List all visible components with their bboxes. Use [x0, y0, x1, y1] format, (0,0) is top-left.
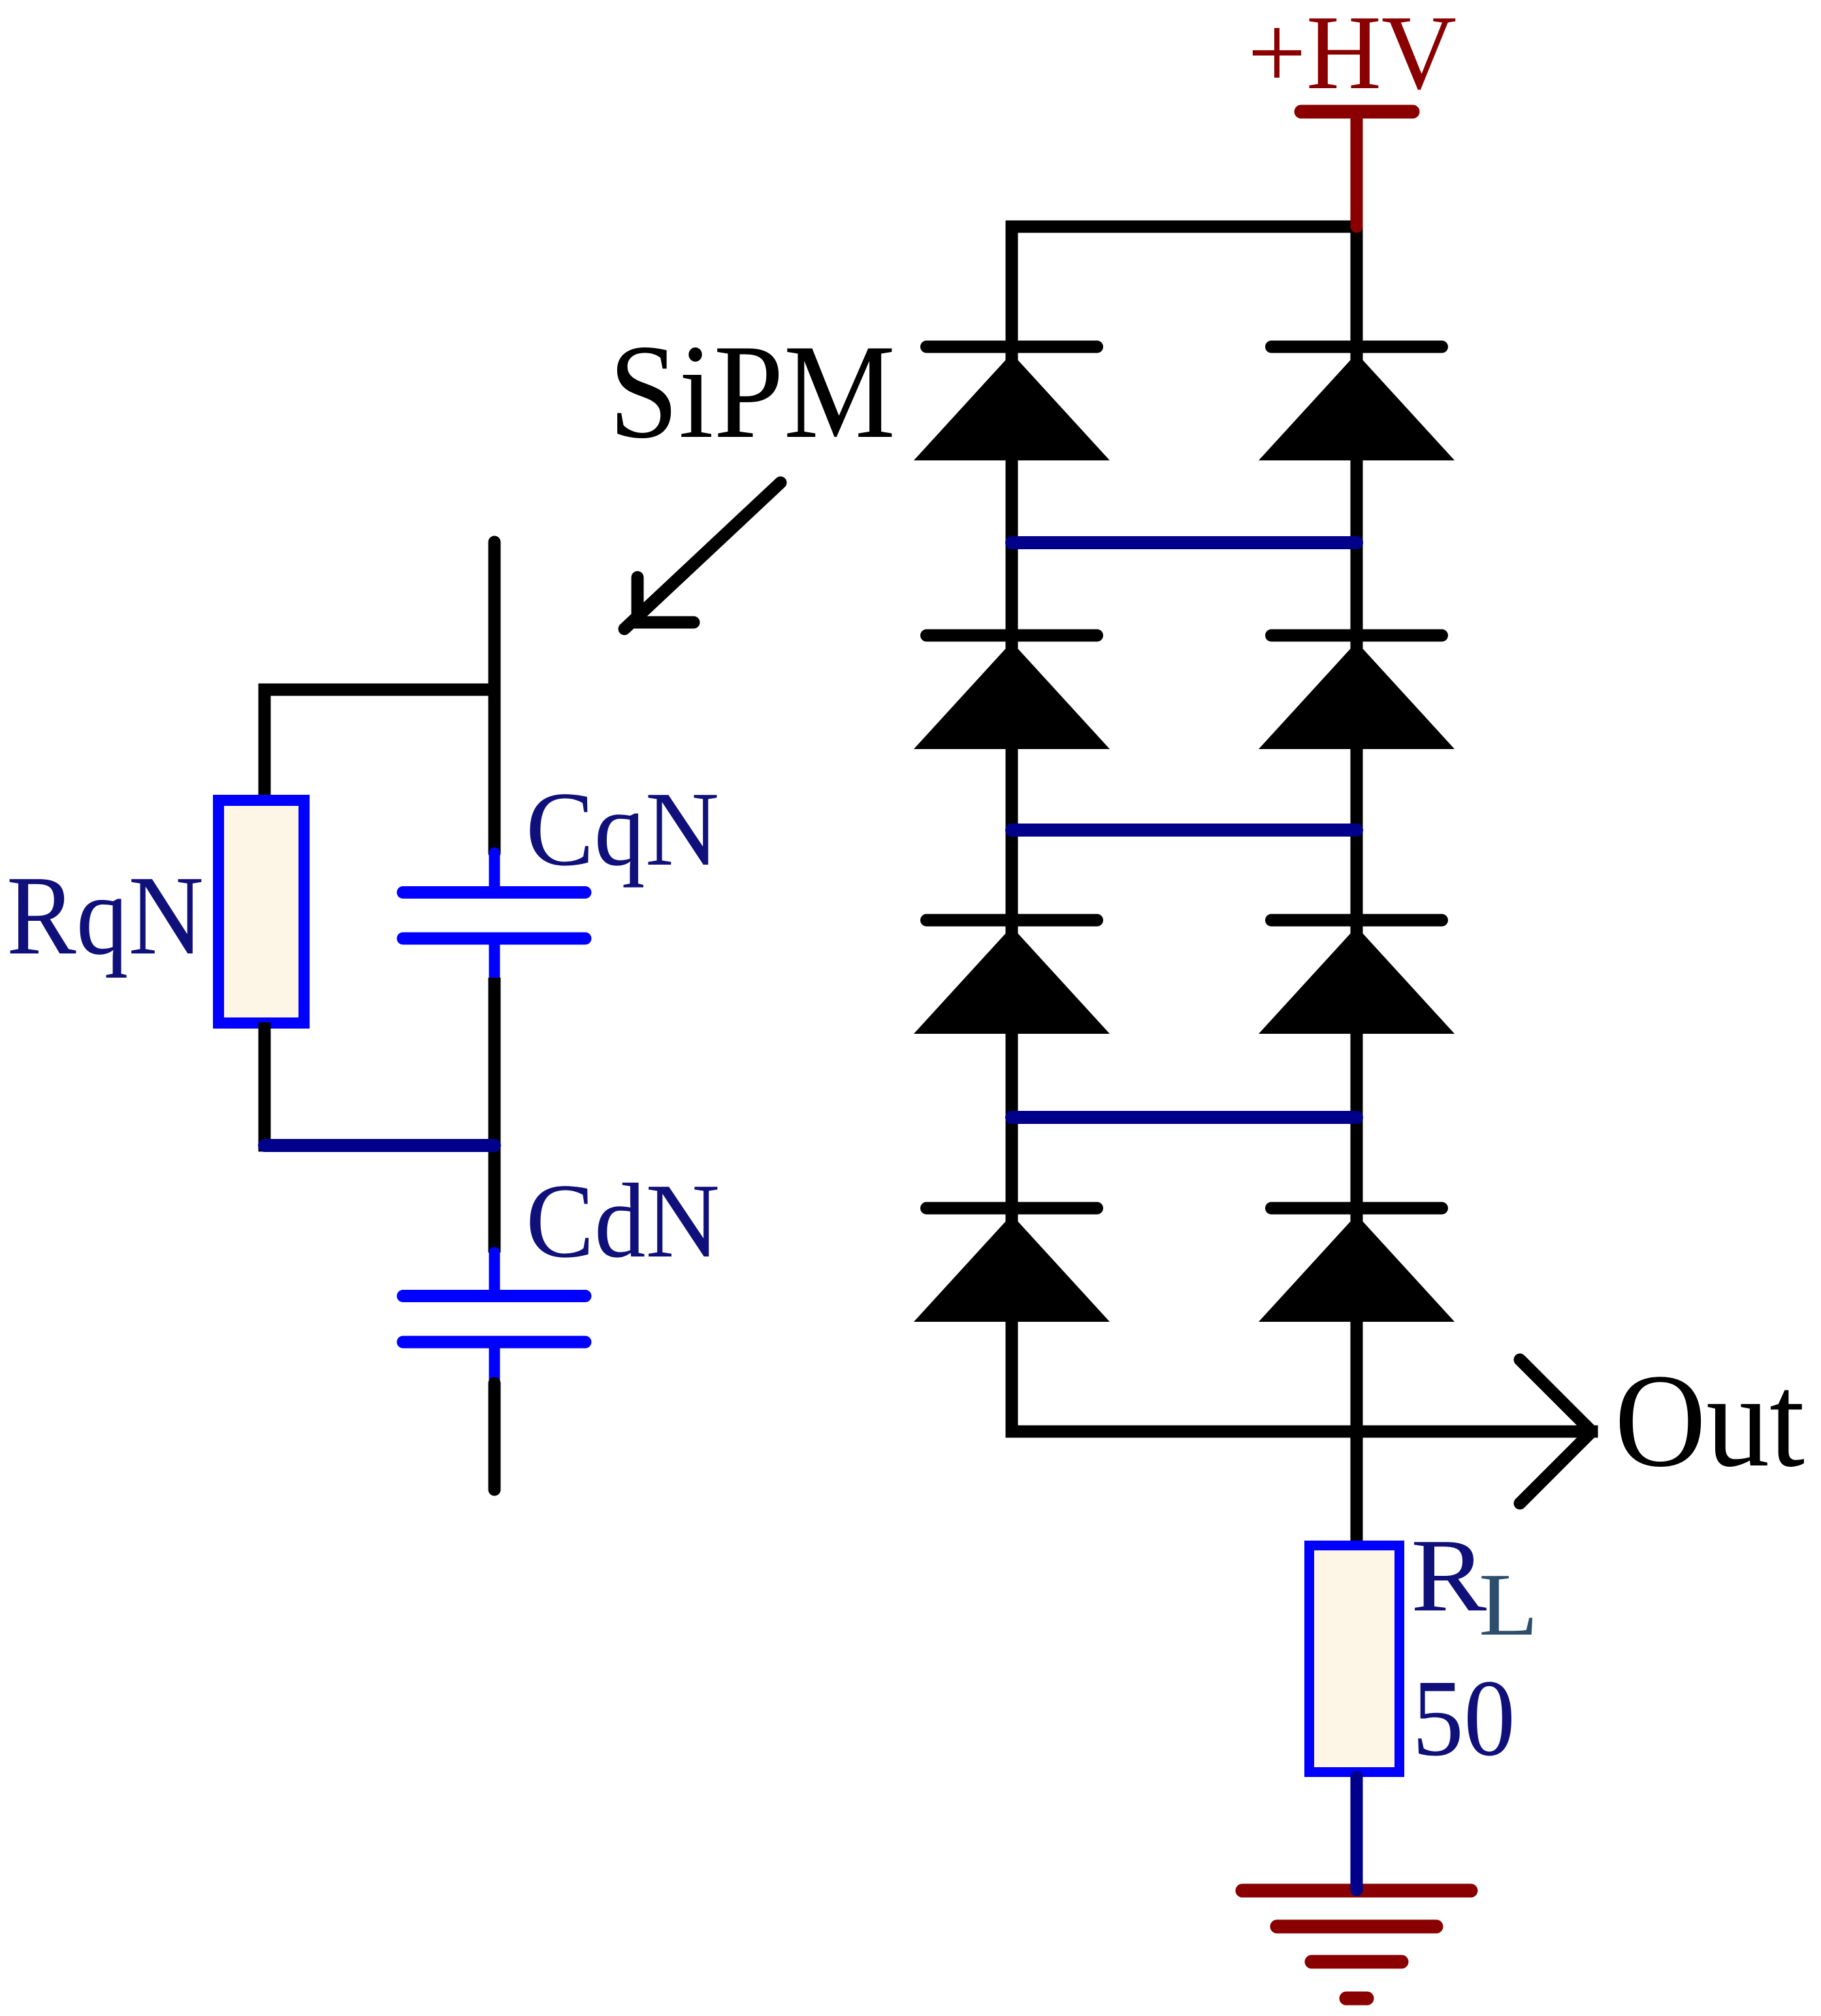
diode D7 (left column row 4) [914, 1208, 1110, 1322]
wire between CqN and CdN [489, 978, 501, 1253]
svg-text:CqN: CqN [526, 771, 719, 888]
SiPM pointer arrow head [632, 577, 644, 620]
svg-text:L: L [1479, 1555, 1538, 1654]
svg-text:SiPM: SiPM [609, 317, 895, 466]
wire microcell cathode lead [489, 1383, 501, 1490]
Out arrow head [1520, 1360, 1592, 1503]
wire top bus from +HV node to left diode column [1012, 221, 1357, 233]
wire right diode column [1351, 227, 1363, 1541]
svg-text:+HV: +HV [1248, 0, 1457, 112]
diode D6 (right column row 3) [1259, 920, 1455, 1034]
ground symbol [1242, 1891, 1471, 1998]
wire blue tie row 1 [1012, 536, 1357, 549]
wire RqN bottom lead [259, 1029, 271, 1145]
resistor RqN [219, 801, 304, 1023]
wire RL to ground [1351, 1777, 1363, 1890]
wire output line [1012, 1426, 1592, 1438]
diode D4 (right column row 2) [1259, 635, 1455, 749]
wire blue tie row 3 [1012, 1111, 1357, 1124]
diode D2 (right column row 1) [1259, 347, 1455, 460]
diode D1 (left column row 1) [914, 347, 1110, 460]
SiPM pointer arrow shaft [624, 483, 781, 629]
wire microcell anode lead [489, 542, 501, 853]
capacitor CdN [403, 1253, 585, 1383]
wire left diode column [1006, 227, 1018, 1432]
capacitor CqN [403, 853, 585, 978]
svg-text:50: 50 [1412, 1657, 1515, 1779]
diode D3 (left column row 2) [914, 635, 1110, 749]
resistor RL [1310, 1546, 1400, 1772]
wire blue tie row 2 [1012, 824, 1357, 837]
svg-text:RqN: RqN [7, 852, 204, 978]
wire branch down to RqN [259, 690, 271, 795]
svg-text:CdN: CdN [526, 1162, 720, 1280]
+HV supply bar [1301, 105, 1413, 119]
svg-text:R: R [1411, 1517, 1487, 1633]
wire microcell branch top [265, 684, 494, 696]
svg-text:Out: Out [1615, 1347, 1805, 1495]
diode D8 (right column row 4) [1259, 1208, 1455, 1322]
wire microcell branch bottom (navy) [265, 1139, 494, 1152]
+HV supply lead [1351, 114, 1363, 227]
diode D5 (left column row 3) [914, 920, 1110, 1034]
